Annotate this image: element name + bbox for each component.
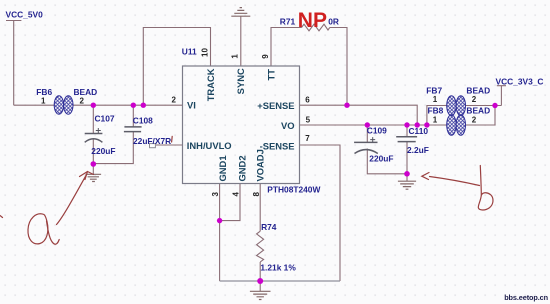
svg-text:1: 1 (41, 96, 46, 105)
svg-text:4: 4 (232, 192, 241, 197)
svg-text:R74: R74 (261, 222, 277, 232)
svg-text:TT: TT (265, 69, 276, 81)
svg-text:3: 3 (211, 192, 220, 197)
svg-text:PTH08T240W: PTH08T240W (267, 184, 320, 194)
svg-text:R71: R71 (280, 17, 296, 27)
svg-text:VO: VO (281, 120, 295, 131)
svg-text:TRACK: TRACK (205, 68, 216, 101)
svg-text:GND2: GND2 (236, 155, 247, 181)
svg-text:SYNC: SYNC (235, 68, 246, 94)
svg-text:bbs.eetop.cn: bbs.eetop.cn (504, 293, 548, 302)
svg-text:U11: U11 (182, 46, 197, 56)
svg-text:2: 2 (472, 115, 477, 124)
svg-text:2.2uF: 2.2uF (407, 145, 429, 155)
svg-text:NP: NP (298, 9, 327, 32)
svg-text:BEAD: BEAD (74, 87, 98, 97)
svg-text:C107: C107 (95, 114, 115, 124)
svg-text:220uF: 220uF (91, 146, 115, 156)
svg-text:8: 8 (252, 192, 261, 197)
svg-text:BEAD: BEAD (466, 85, 490, 95)
svg-text:C109: C109 (367, 125, 387, 135)
svg-text:FB7: FB7 (426, 85, 442, 95)
svg-text:BEAD: BEAD (466, 106, 490, 116)
svg-text:+SENSE: +SENSE (257, 100, 294, 111)
svg-text:INH/UVLO: INH/UVLO (187, 140, 232, 151)
svg-text:FB8: FB8 (428, 106, 444, 116)
svg-text:2: 2 (80, 96, 85, 105)
svg-text:0R: 0R (328, 17, 339, 27)
svg-text:5: 5 (306, 115, 311, 124)
svg-text:2: 2 (472, 95, 477, 104)
svg-text:VI: VI (187, 99, 196, 110)
svg-text:220uF: 220uF (369, 154, 393, 164)
svg-text:1: 1 (433, 95, 438, 104)
svg-text:VCC_3V3_C: VCC_3V3_C (496, 76, 544, 86)
svg-text:7: 7 (305, 134, 310, 143)
svg-text:VCC_5V0: VCC_5V0 (6, 10, 44, 20)
svg-text:6: 6 (305, 96, 310, 105)
svg-text:22uF/X7R: 22uF/X7R (133, 136, 171, 146)
svg-text:1.21k 1%: 1.21k 1% (260, 263, 296, 273)
svg-text:2: 2 (172, 96, 177, 105)
svg-text:1: 1 (231, 54, 240, 59)
svg-text:GND1: GND1 (217, 155, 228, 181)
svg-text:10: 10 (201, 48, 210, 57)
svg-text:C110: C110 (409, 126, 429, 136)
svg-text:9: 9 (261, 54, 270, 59)
svg-text:C108: C108 (133, 115, 153, 125)
svg-text:VOADJ: VOADJ (255, 149, 266, 181)
svg-text:1: 1 (433, 115, 438, 124)
